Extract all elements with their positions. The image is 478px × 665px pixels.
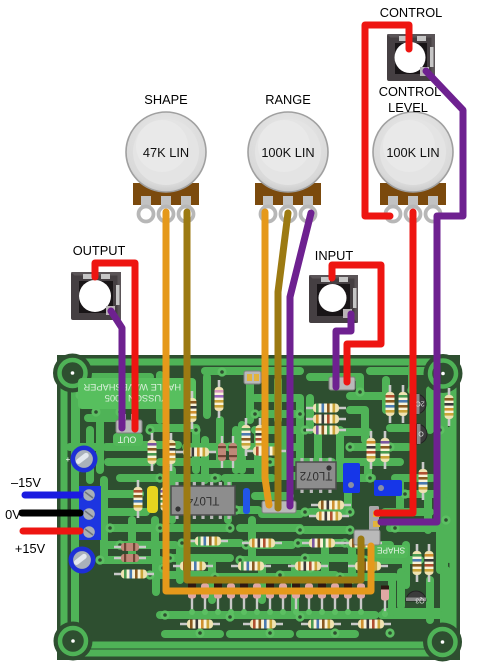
svg-text:OUT: OUT — [117, 435, 136, 445]
resistor R30 — [301, 620, 341, 629]
resistor R27 — [348, 562, 388, 571]
PCB silkscreen title — [78, 378, 196, 409]
electrolytic capacitor C1 — [71, 446, 98, 473]
resistor R26 — [288, 562, 328, 571]
resistor R1 — [188, 391, 197, 429]
transistor Q2 — [417, 424, 427, 444]
resistor R21 — [242, 539, 282, 548]
wire RANGE cw purple — [290, 213, 311, 506]
wire CONTROL jack tip red — [365, 25, 409, 216]
resistor R13 — [413, 544, 422, 582]
resistor R6 — [167, 433, 176, 471]
PCB solder pads — [75, 367, 450, 637]
svg-text:CONTROL: CONTROL — [379, 84, 442, 99]
resistor R16 — [306, 415, 346, 424]
diode D11 — [318, 584, 326, 616]
label CONTROL top — [380, 5, 443, 20]
jack J3 CONTROL — [387, 34, 435, 81]
wire INPUT sleeve purple — [336, 314, 351, 387]
svg-text:TL072: TL072 — [300, 469, 333, 481]
resistor R43 — [134, 480, 143, 518]
resistor R28 — [180, 620, 220, 629]
PCB border trace — [64, 362, 453, 653]
transistor Q1 — [415, 394, 426, 414]
wire CONTROL LEVEL wiper red — [377, 212, 413, 513]
wire OUTPUT tip red — [95, 263, 135, 429]
diode D12 — [331, 584, 339, 616]
header RANGE — [262, 501, 296, 513]
wire SHAPE wiper orange — [166, 212, 371, 591]
label OUTPUT — [73, 243, 126, 258]
diode D4 — [227, 584, 235, 616]
label +15V — [15, 541, 46, 556]
film capacitor C4 yellow — [147, 486, 158, 513]
wire -15V blue — [25, 492, 80, 499]
diode D13 — [344, 584, 352, 616]
jumper wire blue — [243, 488, 250, 514]
svg-text:OUTPUT: OUTPUT — [73, 243, 126, 258]
wire INPUT tip red — [332, 265, 381, 382]
resistor R47 — [309, 512, 349, 521]
electrolytic capacitor C2 — [69, 547, 96, 574]
resistor R17 — [306, 426, 346, 435]
op-amp IC U2 TL072 — [296, 458, 336, 493]
power terminal block — [79, 486, 101, 540]
header AUX — [244, 371, 261, 384]
svg-text:INPUT: INPUT — [315, 248, 354, 263]
capacitor C5 blue — [343, 463, 360, 493]
resistor R25 — [231, 562, 271, 571]
header CONTROL — [369, 506, 380, 531]
svg-text:+15V: +15V — [15, 541, 46, 556]
svg-text:100K LIN: 100K LIN — [261, 145, 314, 160]
capacitor C6 blue — [374, 480, 402, 496]
wire SHAPE cw gold — [187, 212, 361, 580]
resistor R18 — [176, 448, 216, 457]
resistor R44 — [218, 436, 226, 468]
diode D3 — [214, 584, 222, 616]
resistor R10 — [381, 431, 390, 469]
svg-text:SHAPE: SHAPE — [144, 92, 187, 107]
PCB mounting hole 4 — [423, 623, 462, 662]
header OUT — [113, 414, 143, 446]
diode D8 — [279, 584, 287, 616]
label CONTROL LEVEL 2 — [388, 100, 428, 115]
diode D2 — [201, 584, 209, 616]
diode D7 — [266, 584, 274, 616]
label INPUT — [315, 248, 354, 263]
svg-text:0V: 0V — [5, 507, 21, 522]
diode D15 — [381, 586, 389, 618]
resistor R45 — [229, 436, 237, 468]
resistor R23 — [342, 539, 382, 548]
wire OUTPUT sleeve purple — [111, 311, 122, 428]
svg-text:TL074: TL074 — [186, 494, 219, 506]
svg-text:O: O — [418, 430, 424, 437]
diode D9 — [292, 584, 300, 616]
diode D1 — [188, 584, 196, 616]
header SHAPE — [354, 530, 408, 558]
resistor R24 — [173, 562, 213, 571]
potentiometer VR1 SHAPE — [126, 112, 206, 222]
svg-text:–15V: –15V — [11, 475, 41, 490]
PCB copper traces — [70, 368, 449, 645]
resistor R41 — [114, 554, 146, 562]
jack J2 INPUT — [309, 275, 358, 323]
svg-text:100K LIN: 100K LIN — [386, 145, 439, 160]
resistor R15 — [306, 404, 346, 413]
resistor R20 — [188, 537, 228, 546]
diode D14 — [357, 584, 365, 616]
wire RANGE ccw orange — [265, 212, 269, 505]
resistor R11 — [445, 388, 454, 426]
resistor R40 — [114, 543, 146, 551]
header IN — [329, 362, 355, 390]
wire +15V red — [23, 528, 80, 535]
resistor R3 — [242, 418, 251, 456]
wire CONTROL jack sleeve purple — [381, 71, 463, 522]
resistor R7 — [386, 385, 395, 423]
resistor R12 — [419, 462, 428, 500]
label 0V — [5, 507, 21, 522]
resistor R14 — [425, 544, 434, 582]
wire 0V black — [22, 510, 80, 517]
resistor R22 — [302, 539, 342, 548]
diode D6 — [253, 584, 261, 616]
svg-text:SHAPE: SHAPE — [376, 546, 405, 556]
diode D10 — [305, 584, 313, 616]
diode D5 — [240, 584, 248, 616]
PCB mounting hole 2 — [424, 354, 463, 393]
resistor R46 — [311, 501, 351, 510]
polarity mark C1 — [66, 455, 71, 464]
resistor R5 — [148, 433, 157, 471]
resistor R2 — [215, 380, 224, 418]
transistor Q3 — [406, 591, 426, 604]
label CONTROL LEVEL 1 — [379, 84, 442, 99]
resistor R42 — [114, 570, 154, 579]
resistor R8 — [399, 385, 408, 423]
PCB mounting hole 3 — [54, 622, 93, 661]
label SHAPE — [144, 92, 187, 107]
jack J1 OUTPUT — [71, 272, 121, 320]
svg-text:CONTROL: CONTROL — [380, 5, 443, 20]
svg-text:Q3: Q3 — [415, 597, 424, 604]
resistor R4 — [256, 418, 265, 456]
svg-text:+: + — [66, 455, 71, 464]
svg-text:RANGE: RANGE — [265, 92, 311, 107]
label RANGE — [265, 92, 311, 107]
resistor R29 — [243, 620, 283, 629]
resistor R19 — [246, 447, 286, 456]
PCB mounting hole 1 — [53, 354, 92, 393]
label -15V — [11, 475, 41, 490]
wire RANGE wiper gold — [278, 213, 288, 508]
potentiometer VR3 CONTROL LEVEL — [373, 112, 453, 222]
resistor R31 — [351, 620, 391, 629]
resistor R15 — [161, 480, 170, 518]
PCB board — [57, 355, 460, 660]
op-amp IC U1 TL074 — [171, 482, 235, 519]
resistor R9 — [367, 431, 376, 469]
svg-text:LEVEL: LEVEL — [388, 100, 428, 115]
svg-text:47K LIN: 47K LIN — [143, 145, 189, 160]
potentiometer VR2 RANGE — [248, 112, 328, 222]
